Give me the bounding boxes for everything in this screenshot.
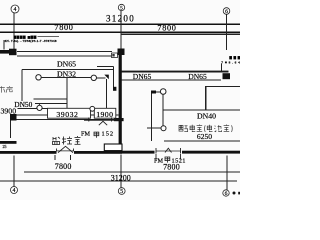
grid marker 4 top vertical line xyxy=(13,13,15,50)
right room inner box top xyxy=(205,86,240,88)
svg-text:5: 5 xyxy=(120,189,123,195)
top-left wall thick segment xyxy=(0,50,10,54)
door symbol top (in wall y119) xyxy=(89,118,112,126)
grid circle 4 bottom xyxy=(11,187,18,194)
svg-text:1900: 1900 xyxy=(96,110,113,119)
svg-text:39032: 39032 xyxy=(56,110,78,119)
central wall thick bar xyxy=(119,55,122,119)
sprig line left segment xyxy=(18,107,38,109)
svg-text:31200: 31200 xyxy=(111,174,131,183)
svg-text:DN65: DN65 xyxy=(133,72,152,81)
CJK glyphs drawn as strokes xyxy=(0,86,13,93)
char shi2 xyxy=(197,125,203,132)
niche rect in wall xyxy=(104,144,122,151)
svg-text:FM: FM xyxy=(154,157,163,164)
stub bottom blob xyxy=(113,87,116,91)
sprinkler fitting blob right room xyxy=(151,91,156,94)
stub line near riser xyxy=(97,66,114,68)
annotation leader line top-left xyxy=(3,40,5,50)
char dian2 xyxy=(207,125,212,132)
svg-text:7800: 7800 xyxy=(54,23,73,32)
branch to lower sprinkler xyxy=(147,127,161,129)
top-left pipe/wall double line xyxy=(17,52,112,56)
char ji of jifang (machine room), partially cut at left edge xyxy=(0,86,5,92)
central wall foot blob xyxy=(114,118,124,121)
dimension box 1900 xyxy=(94,108,116,118)
svg-text:6250: 6250 xyxy=(197,132,212,141)
svg-text:4N. 7.8s(. ‐ 7F38(P3.1‐7 ‐3787: 4N. 7.8s(. ‐ 7F38(P3.1‐7 ‐3787348 xyxy=(5,39,57,43)
grid marker 6 top vertical line xyxy=(226,15,228,51)
char chi xyxy=(214,125,221,132)
char fang of jifang xyxy=(6,86,13,93)
svg-text:7800: 7800 xyxy=(55,162,72,171)
wall pier blob xyxy=(10,114,17,121)
text peidianshi(dianchishi) power distribution room xyxy=(179,125,232,133)
label FM jia 152 (monitoring room door) xyxy=(81,131,114,138)
door symbol bottom-right FM1521 xyxy=(156,148,181,160)
sprinkler head right room lower xyxy=(161,126,166,131)
DN50 pipe double line xyxy=(34,98,68,100)
char pei xyxy=(179,125,188,131)
pipe drop from stub xyxy=(113,67,115,87)
sprinkler head left room top row xyxy=(36,75,41,80)
char dian xyxy=(190,125,195,132)
svg-text:7800: 7800 xyxy=(157,23,176,32)
svg-text:DN50: DN50 xyxy=(14,100,32,109)
svg-text:DN65: DN65 xyxy=(57,60,76,69)
paren ) xyxy=(231,125,234,132)
grid circle 5 bottom xyxy=(118,188,125,195)
char shi xyxy=(75,136,81,144)
machine room inner rect top edge xyxy=(22,69,114,71)
svg-text:5: 5 xyxy=(120,6,123,12)
pipe end blob xyxy=(223,73,231,79)
top dimension line upper xyxy=(0,23,240,25)
bottom dim line B xyxy=(0,180,237,182)
right room vertical pipe 1 xyxy=(151,94,153,142)
svg-text:4: 4 xyxy=(13,188,16,194)
wall fitting blob xyxy=(9,49,17,56)
grid marker 5 top vertical line xyxy=(120,11,122,49)
svg-text:FM: FM xyxy=(81,131,90,138)
bottom wall right room segments with door gap xyxy=(122,151,155,154)
label FM jia 1521 (right room door) xyxy=(154,157,186,164)
DN32 branch right drop xyxy=(106,79,108,109)
svg-text:DN40: DN40 xyxy=(197,112,216,121)
main valve blob xyxy=(118,49,125,56)
svg-text:31200: 31200 xyxy=(106,13,135,23)
stray dot xyxy=(233,192,236,195)
top right wall line xyxy=(122,33,241,35)
grid 4 bottom extension xyxy=(13,156,15,187)
grid 6 bottom extension xyxy=(226,156,228,190)
monitoring room left black bar xyxy=(0,141,17,144)
paren ( xyxy=(204,125,207,132)
valve box xyxy=(112,53,118,58)
sprinkler stem top xyxy=(151,91,161,93)
svg-text:DN65: DN65 xyxy=(188,72,207,81)
grid circle 6 bottom xyxy=(223,190,229,196)
grid 5 bottom extension xyxy=(120,155,122,188)
bottom dim line A xyxy=(24,171,240,173)
sprinkler head right room upper xyxy=(160,89,166,95)
door symbol bottom-left xyxy=(57,146,75,152)
svg-text:▇▇▇: ▇▇▇ xyxy=(229,56,241,60)
svg-text:DN32: DN32 xyxy=(57,70,76,79)
grid circle 4 top xyxy=(11,5,19,13)
right room vertical pipe 2 xyxy=(162,95,164,126)
svg-text:4: 4 xyxy=(14,7,17,13)
central wall lower bar xyxy=(119,121,122,144)
svg-text:1521: 1521 xyxy=(172,157,186,164)
machine room inner rect left edge xyxy=(21,70,23,102)
char kong xyxy=(62,137,72,145)
sprinkler stem to DN50 pipe xyxy=(38,104,40,105)
annotation leader line top-right xyxy=(220,64,222,72)
svg-text:3900: 3900 xyxy=(1,106,17,115)
dimension box 39032 xyxy=(48,108,91,118)
monitoring room left door line xyxy=(9,121,11,139)
right room DN65 pipe xyxy=(122,71,229,73)
top dimension line lower xyxy=(0,31,240,33)
char shi3 xyxy=(224,125,230,132)
char jia (in FM 152 label) xyxy=(94,132,99,138)
monitoring room bottom wall with door gap xyxy=(0,151,57,154)
right room lower line 6250 xyxy=(164,140,240,142)
sprinkler head lower row xyxy=(37,105,42,110)
char jian xyxy=(53,137,61,145)
char jia (in FM 1521 label) xyxy=(165,157,170,163)
DN32 sprinkler branch line xyxy=(39,77,106,79)
svg-text:6: 6 xyxy=(225,9,228,15)
grid circle 6 top xyxy=(223,8,230,15)
text jiankongshi (monitoring room) xyxy=(53,136,81,145)
DN32 middle drop xyxy=(66,78,68,109)
svg-text:6: 6 xyxy=(225,191,228,197)
right room shelf line xyxy=(163,109,240,111)
right room inner box left (riser) xyxy=(205,87,207,110)
stray mark right edge xyxy=(238,192,240,195)
machine room / monitoring wall band xyxy=(17,115,119,119)
door jamb tick extensions bottom-left xyxy=(54,155,56,160)
svg-text:152: 152 xyxy=(102,131,115,138)
grid circle 5 top xyxy=(118,4,124,10)
arrow blob at DN32 branch corner xyxy=(104,75,109,80)
svg-text:25: 25 xyxy=(3,144,7,149)
